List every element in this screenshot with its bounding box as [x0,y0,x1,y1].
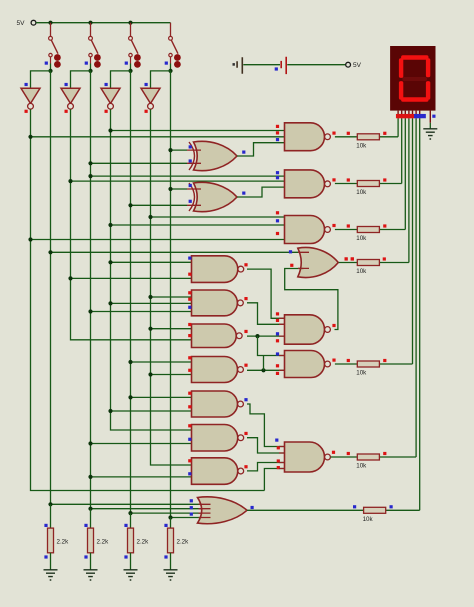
xor gate X2 output marker [242,192,245,195]
nand gate A6 output marker [244,364,247,367]
nand gate N3 [285,216,325,244]
wire pulldown 1 top [50,504,52,528]
switch SW3 state dots [134,54,141,61]
pin stubs OR4 [298,252,309,268]
wire A3 in2 row [71,277,194,279]
wire bus col nB x70 inverter2 output [71,109,194,340]
battery BT1 right cell [281,57,286,74]
display segment A [401,55,428,60]
nand gate A8 [192,425,238,452]
wire A5 out to NAND5 in3 [247,335,287,337]
wire output row R6 [331,456,358,458]
wire bus col nA x30 inverter1 output [31,109,265,490]
nand gate A9 input markers [188,459,191,462]
svg-text:10k: 10k [356,189,367,196]
wire pulldown 2 bottom [90,553,92,570]
node 5V terminal right [346,62,351,67]
switch SW1 lever [51,40,58,54]
nand gate A6 [192,357,238,383]
or gate O10 input markers [190,499,193,502]
nand gate A9 output marker [244,465,247,468]
wire A6 out to NAND6 in2 [247,369,287,371]
switch SW4 pole circle [169,36,173,40]
wire output row R4 [339,262,358,264]
switch SW4 marker [165,62,168,65]
switch SW2 marker [85,62,88,65]
resistor RP4 markers [164,524,167,527]
inverter U2 output marker [65,110,68,113]
junction x130 y204.8 [128,203,132,207]
resistor R4 markers [345,257,348,260]
junction x130 y361.5 [128,360,132,364]
display segment E [399,81,403,100]
ground pulldown 1 [44,570,58,580]
junction sw2 x90 y70 [88,69,92,73]
switch SW1 pole stub [50,23,52,37]
wire A9 in2 row [91,476,194,478]
ground pulldown 4 [164,570,178,580]
wire bus col B x90 [90,71,92,509]
nand gate A4 [192,290,238,316]
junction x170 y149.6 [168,148,172,152]
resistor R3 markers [347,224,350,227]
pin stubs XOR2 [187,189,201,205]
resistor RP2 markers [84,524,87,527]
wire A5 in1 row [151,328,194,330]
nand gate A7 output marker [244,398,247,401]
switch SW1 state dots [54,54,61,61]
resistor R1 markers [347,132,350,135]
resistor R2 10k [357,181,379,187]
junction x70 y277.9 [68,276,72,280]
xor gate X1 [189,142,195,170]
switch SW4 lever [171,40,178,54]
switch SW1 pole circle [49,36,53,40]
svg-text:5V: 5V [17,20,26,27]
nand gate N1 [285,123,325,151]
wire pulldown 4 top [170,518,172,529]
wire A7 in2 row [111,410,194,412]
nand gate A8 input markers [188,424,191,427]
switch SW3 marker [125,62,128,65]
switch SW3 throw contact [129,53,132,56]
wire OR10 in1 row [51,503,207,505]
junction x150 y328.2 [148,327,152,331]
wire pulldown 4 bottom [170,553,172,570]
wire NAND3 in3 row [31,239,287,241]
junction x70 y180.6 [68,179,72,183]
resistor RP4 2.2k [168,528,174,553]
wire NAND2 in2 row [71,180,287,182]
xor gate X2 [189,183,195,211]
nand gate N7 output marker [332,451,335,454]
wire A7 out to NAND7 in1 [247,404,287,447]
nand gate A5 [192,324,237,348]
nand gate N7 input markers [275,439,278,442]
svg-text:2.2k: 2.2k [137,539,150,546]
xor gate X2 input markers [189,184,192,187]
wire bus col A x50 [50,71,52,504]
nand gate N5 input markers [276,312,279,315]
switch SW2 lever [91,40,98,54]
wire SW4 contact down [170,57,172,64]
nand gate N1 output marker [332,132,335,135]
nand gate N7 [285,442,325,472]
inverter U3 input marker [105,83,108,86]
junction x30 y136.3 [28,135,32,139]
or gate O10 output marker [251,506,254,509]
display DS1 pins [397,111,399,119]
wire output row R1 [335,136,357,138]
wire battery right [287,64,345,66]
inverter U3 [101,88,120,103]
junction A5 branch [255,334,259,338]
display segment D [401,97,428,102]
junction sw1 x50 y70 [48,69,52,73]
inverter U2 input marker [65,83,68,86]
nand gate A8 output marker [244,432,247,435]
junction x110 y410.5 [108,409,112,413]
wire pulldown 3 bottom [130,553,132,570]
wire NAND3 in2 row [111,224,287,226]
switch SW2 pole circle [89,36,93,40]
display DS1 segment G off [402,77,427,81]
wire NAND1 in1 row [111,130,287,132]
junction x130 y512.6 [128,511,132,515]
inverter U4 output marker [145,110,148,113]
wire OR10 in3 row [131,512,207,514]
switch SW1 throw contact [49,53,52,56]
resistor R5 10k [357,361,379,367]
wire pulldown 1 bottom [50,553,52,570]
switch SW3 pole stub [130,23,132,37]
switch SW2 pole stub [90,23,92,37]
pin stubs NAND7 [279,447,285,469]
resistor RP1 2.2k [48,528,54,553]
wire OR4 in1 row [51,251,304,253]
nand gate N2 [285,170,325,198]
wire NAND5 out loop to OR4 in2 [285,269,338,330]
display segment B [426,58,430,77]
wire XOR2 in2 row [131,204,188,206]
xor gate X1 input markers [189,145,192,148]
nand gate N2 output marker [332,178,335,181]
wire A8 out to NAND7 in2 [247,438,287,453]
wire NAND2 in1 row [91,175,287,177]
battery marker [275,67,278,70]
pin stubs XOR1 [187,150,201,163]
junction x90 y443 [88,441,92,445]
resistor RP3 markers [124,524,127,527]
svg-text:5V: 5V [353,62,362,69]
wire NAND3 in1 row [151,216,287,218]
nand gate A4 input markers [188,291,191,294]
pin stubs OR10 [199,504,211,517]
wire SW3 contact down [130,57,132,64]
nand gate N3 input markers [276,211,279,214]
wire XOR1 in2 row [91,162,188,164]
display ground pin [429,111,431,123]
or gate O4 output markers [345,257,348,260]
junction x90 y311 [88,309,92,313]
junction x50 y503.8 [48,502,52,506]
svg-text:2.2k: 2.2k [177,539,190,546]
wire A9 out to NAND7 in3 [247,463,287,471]
junction x110 y302.9 [108,301,112,305]
svg-text:10k: 10k [356,463,367,470]
wire output row R5 [335,363,357,365]
switch SW4 throw contact [169,53,172,56]
wire row to inverter U3 [111,71,131,88]
svg-text:2.2k: 2.2k [57,539,70,546]
display segment C [426,81,430,100]
wire SW1 contact down [50,57,52,64]
wire NAND1 in2 row [31,136,287,138]
resistor R3 10k [357,227,379,233]
switch SW4 state dots [174,54,181,61]
junction x130 y396.9 [128,395,132,399]
pin stubs NAND6 [279,356,285,371]
or gate O10 (5-input) [198,497,248,524]
junction x150 y296.5 [148,295,152,299]
inverter U4 [141,88,160,103]
wire OR10 in4 row [171,517,205,519]
node 5V terminal [31,20,36,25]
nand gate A3 input markers [188,257,191,260]
display segment F [399,58,403,78]
wire A6 branch up to NAND6 in1 rail [263,356,265,371]
resistor R5 markers [347,359,350,362]
wire pulldown 3 top [130,513,132,528]
junction x90 y175.6 [88,174,92,178]
nand gate N5 [285,315,325,344]
wire bus col C x130 [130,71,132,513]
resistor R7 10k [364,507,386,513]
resistor R4 10k [357,260,379,266]
junction x90 y508.2 [88,507,92,511]
junction rail x90 [88,21,92,25]
junction x170 y517 [168,515,172,519]
wire A4 in1 row [151,296,194,298]
junction sw4 x170 y70 [168,69,172,73]
battery BT1 [233,63,235,66]
resistor RP2 2.2k [88,528,94,553]
display pin markers [396,114,400,118]
nand gate N3 output marker [332,224,335,227]
wire power rail [36,22,171,24]
inverter U4 input marker [145,83,148,86]
nand gate A4 output marker [244,297,247,300]
ground pulldown 2 [84,570,98,580]
wire A4 in3 row [91,311,194,313]
wire A6 in1 row [131,361,194,363]
junction A6 branch [261,368,265,372]
nand gate A3 output marker [244,263,247,266]
switch SW1 marker [45,62,48,65]
wire display ground [429,123,431,129]
wire XOR1 in1 row [171,149,188,151]
junction x150 y216.5 [148,215,152,219]
wire pulldown 2 top [90,509,92,528]
junction x30 y239 [28,237,32,241]
wire A4 out to NAND5 in2 [247,303,287,325]
wire A5 branch to NAND6 in1 [258,336,287,355]
inverter U1 output marker [25,110,28,113]
nand gate A9 [192,458,238,485]
nand gate A6 input markers [188,356,191,359]
inverter U3 output marker [105,110,108,113]
nand gate A5 output marker [244,330,247,333]
resistor R6 markers [347,452,350,455]
wire bus col nD x150 inverter4 output [151,109,194,465]
svg-text:10k: 10k [363,516,374,523]
resistor R7 markers [353,505,356,508]
nand gate A5 input markers [188,323,191,326]
junction x110 y224.5 [108,223,112,227]
nand gate A3 [192,256,238,283]
switch SW3 lever [131,40,138,54]
wire A7 in1 row [131,396,194,398]
wire row to inverter U4 [151,71,171,88]
svg-text:2.2k: 2.2k [97,539,110,546]
resistor R2 markers [347,178,350,181]
xor gate X1 output marker [242,151,245,154]
junction rail x130 [128,21,132,25]
switch SW2 throw contact [89,53,92,56]
switch SW3 pole circle [129,36,133,40]
wire XOR1 output to NAND1 [237,143,287,156]
wire battery left [243,64,280,66]
wire SW2 contact down [90,57,92,64]
nand gate N5 output marker [332,324,335,327]
wire A6 in2 row [151,374,194,376]
inverter U1 [21,88,40,103]
wire A3 in1 row [111,261,194,263]
switch SW2 state dots [94,54,101,61]
wire row to inverter U1 [31,71,51,88]
nand gate N2 input markers [276,171,279,174]
inverter U2 [61,88,80,103]
junction x110 y130 [108,128,112,132]
wire output row R3 [335,229,357,231]
wire XOR2 output to NAND2 [237,187,287,197]
wire display pin verticals [397,119,399,137]
wire output row R7 [247,509,364,511]
wire bus col nC x110 inverter3 output [111,109,194,430]
resistor RP1 markers [44,524,47,527]
wire OR10 in2 row [91,508,208,510]
junction x90 y162.8 [88,161,92,165]
wire A3 out to NAND5 in1 [247,269,287,318]
inverter U1 input marker [25,83,28,86]
nand gate N6 output marker [332,359,335,362]
junction x50 y251.8 [48,250,52,254]
display ground pin marker [432,115,435,118]
junction x150 y374 [148,372,152,376]
or gate O4 input markers [289,250,292,253]
junction sw3 x130 y70 [128,69,132,73]
nand gate A7 [192,391,238,417]
svg-text:10k: 10k [356,370,367,377]
nand gate N6 input markers [276,352,279,355]
or gate O4 [298,248,339,278]
display DS1 body [390,46,435,111]
wire A8 in2 row [91,443,194,445]
wire A4 in2 row [111,302,194,304]
svg-text:10k: 10k [356,142,367,149]
resistor RP3 2.2k [128,528,134,553]
nand gate A7 input markers [188,392,191,395]
wire XOR2 in1 row [171,188,188,190]
resistor R1 10k [357,134,379,140]
resistor R6 10k [357,454,379,460]
svg-text:10k: 10k [356,268,367,275]
junction x90 y476.4 [88,475,92,479]
wire row to inverter U2 [71,71,91,88]
junction x110 y261.8 [108,260,112,264]
pin stubs NAND5 [279,318,285,336]
wire col30 row to NAND7 in4 [264,469,286,491]
nand gate N6 [285,351,325,378]
svg-text:10k: 10k [356,235,367,242]
nand gate N1 input markers [276,125,279,128]
ground display [423,129,437,139]
ground pulldown 3 [124,570,138,580]
junction x170 y188.5 [168,187,172,191]
switch SW4 pole stub [170,23,172,37]
wire output row R2 [335,183,357,185]
junction rail x50 [48,21,52,25]
wire bus col D x170 [170,71,172,518]
